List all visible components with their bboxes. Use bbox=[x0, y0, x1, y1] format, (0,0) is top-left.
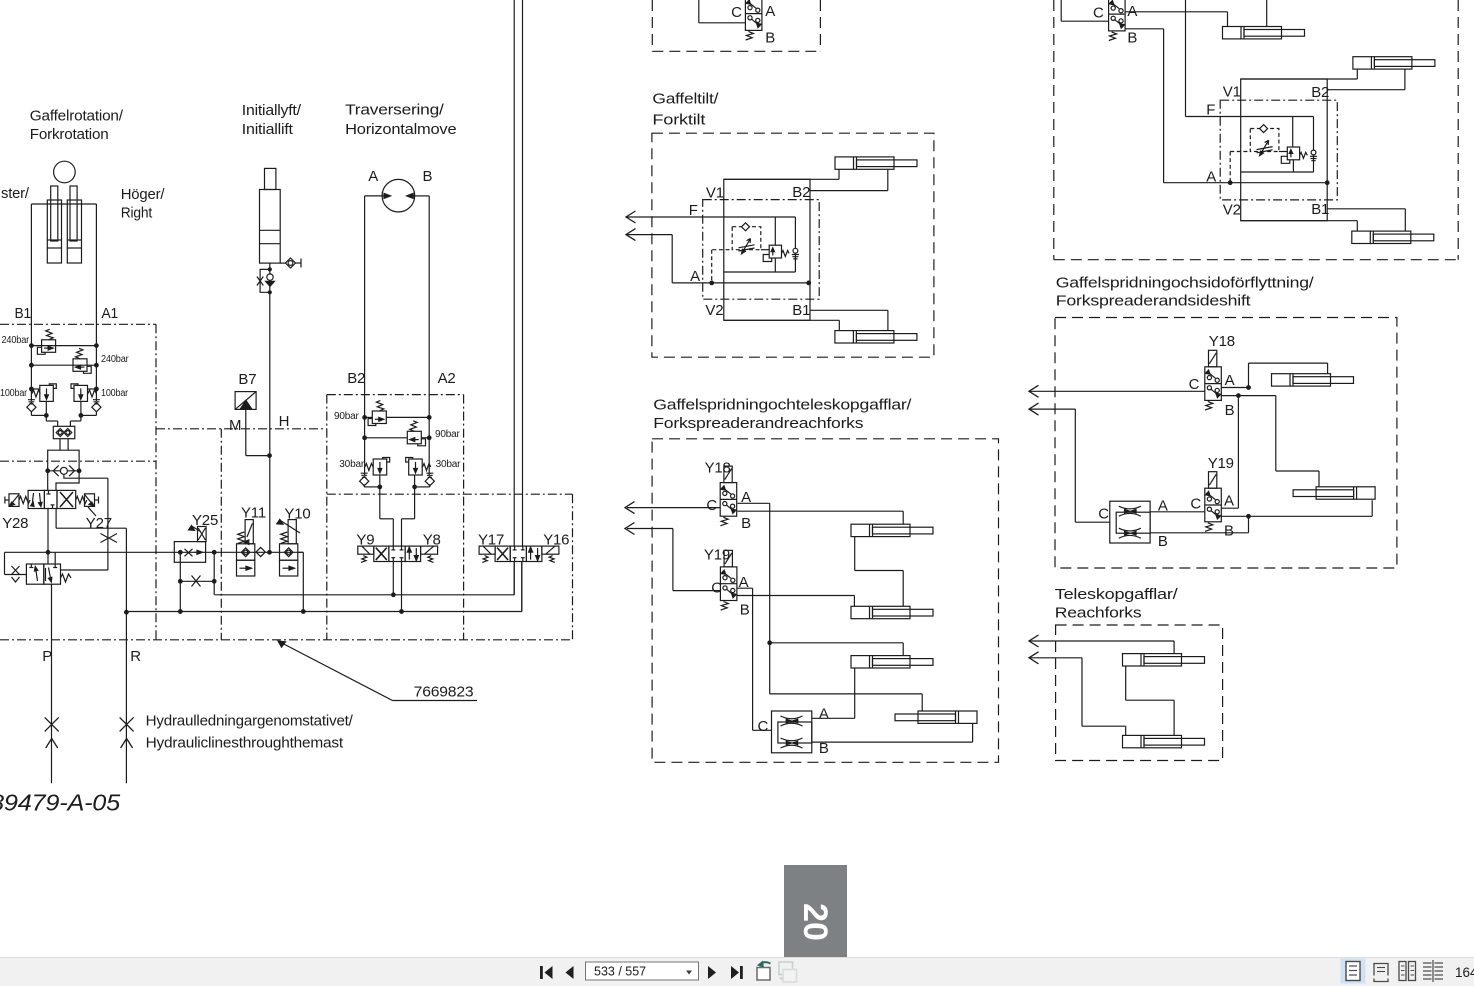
svg-text:A: A bbox=[819, 705, 829, 722]
wire C2 to Y19 reach bbox=[625, 523, 720, 591]
solenoid Y28 left actuator bbox=[5, 494, 30, 507]
wire Y19 A reach to divider bbox=[737, 588, 772, 730]
valve CAB top-right bbox=[1109, 0, 1126, 40]
dashed box sideshift bbox=[1055, 318, 1397, 569]
svg-text:100bar: 100bar bbox=[0, 388, 28, 399]
wire Y18 B reach bbox=[738, 511, 904, 524]
previous view icon bbox=[757, 961, 771, 981]
svg-text:C: C bbox=[1189, 376, 1200, 393]
dashed box top-center bbox=[652, 0, 820, 51]
pointer line 7669823 bbox=[278, 641, 477, 701]
svg-text:P: P bbox=[42, 648, 52, 665]
svg-text:B: B bbox=[740, 601, 750, 618]
svg-text:Gaffelrotation/: Gaffelrotation/ bbox=[30, 108, 124, 125]
page number combobox bbox=[586, 962, 699, 980]
svg-text:B: B bbox=[819, 740, 829, 757]
orifice symbol >< bbox=[101, 534, 118, 543]
nav next page icon bbox=[708, 966, 716, 979]
dash-dot bottom rail bbox=[0, 639, 573, 641]
pilot check block bbox=[46, 450, 108, 490]
svg-text:A: A bbox=[1127, 3, 1137, 20]
wire lower rail 611.5 bbox=[126, 562, 521, 612]
wire divider A to Y19 C bbox=[1150, 511, 1205, 513]
wire teleskop loop bbox=[1126, 667, 1174, 736]
wire B1 right bbox=[1327, 209, 1405, 231]
svg-text:Y9: Y9 bbox=[356, 532, 374, 549]
wire rail jog after Y10 bbox=[299, 552, 306, 613]
svg-text:V2: V2 bbox=[705, 302, 723, 319]
net A1 vertical bbox=[95, 204, 97, 401]
teleskop cylinder 2 bbox=[1123, 735, 1205, 747]
svg-text:164: 164 bbox=[1455, 965, 1474, 980]
dashed box Gaffeltilt bbox=[652, 133, 934, 357]
svg-text:M: M bbox=[229, 417, 241, 434]
svg-text:H: H bbox=[279, 413, 290, 430]
rotator outer box top bbox=[31, 203, 96, 205]
reach cylinder 1 bbox=[851, 524, 933, 536]
wire Y18 B port bbox=[1221, 394, 1319, 508]
svg-text:Reachforks: Reachforks bbox=[1055, 604, 1142, 621]
nav first page icon bbox=[540, 966, 553, 979]
shuttle diamond between Y11 Y10 bbox=[256, 547, 265, 556]
reducing valve 30bar left bbox=[360, 458, 390, 519]
initial lift cylinder rod bbox=[265, 168, 276, 189]
svg-text:Y18: Y18 bbox=[1209, 333, 1235, 350]
svg-text:C: C bbox=[706, 497, 717, 514]
net B motor line bbox=[415, 196, 430, 475]
check valve diamond under B1 bbox=[27, 400, 36, 412]
svg-text:R: R bbox=[130, 648, 141, 665]
P arrow chevron bbox=[46, 739, 58, 749]
dash-dot M-H line bbox=[156, 428, 327, 430]
breather check on cylinder bbox=[280, 258, 301, 268]
svg-text:A: A bbox=[741, 489, 751, 506]
svg-text:A1: A1 bbox=[102, 305, 119, 322]
net F line bbox=[626, 211, 795, 245]
relief valve 240bar right bbox=[73, 348, 91, 373]
wire 100bar row bbox=[30, 387, 99, 391]
svg-text:A: A bbox=[739, 574, 749, 591]
next view icon disabled bbox=[779, 962, 797, 982]
svg-text:240bar: 240bar bbox=[2, 335, 30, 346]
svg-text:A: A bbox=[1206, 169, 1216, 186]
wire M line bbox=[246, 409, 272, 457]
reducing valve 30bar right bbox=[406, 458, 435, 519]
wire pilot with orifice bbox=[61, 478, 108, 570]
svg-text:V1: V1 bbox=[706, 185, 724, 202]
svg-text:Y18: Y18 bbox=[705, 459, 731, 476]
wire Y18 A port bbox=[1221, 363, 1327, 389]
R flex joint X bbox=[120, 717, 134, 731]
svg-text:90bar: 90bar bbox=[435, 429, 461, 440]
svg-text:B: B bbox=[741, 515, 751, 532]
dashed box teleskop bbox=[1056, 625, 1223, 761]
valve Y10 bbox=[277, 519, 300, 576]
wire rail branch into lower valve bbox=[54, 552, 56, 564]
wire V1 right bbox=[1241, 69, 1358, 79]
dashed box top-right bbox=[1054, 0, 1458, 260]
wire Y9Y8 bottom ports bbox=[393, 562, 401, 612]
right tilt pilot dashed box bbox=[1220, 100, 1337, 200]
wire C to Y18 reach bbox=[625, 502, 720, 514]
wire B1 to bottom cylinder bbox=[810, 310, 888, 330]
svg-text:Gaffeltilt/: Gaffeltilt/ bbox=[652, 90, 719, 107]
net A motor line bbox=[365, 196, 383, 475]
wire H junction dot on rail bbox=[268, 551, 272, 555]
svg-text:Y27: Y27 bbox=[86, 515, 112, 532]
svg-text:A: A bbox=[1225, 372, 1235, 389]
valve Y17/Y16 bbox=[479, 546, 559, 562]
reducing valve 100bar right bbox=[71, 384, 88, 402]
svg-text:B: B bbox=[1225, 402, 1235, 419]
wire Y27 port to R drop bbox=[56, 509, 128, 615]
svg-text:30bar: 30bar bbox=[339, 459, 365, 470]
net H vertical bbox=[269, 263, 271, 552]
svg-text:F: F bbox=[1206, 102, 1215, 119]
wire V1 to top cylinder bbox=[724, 169, 839, 179]
initial lift cylinder barrel bbox=[260, 190, 281, 264]
svg-text:B2: B2 bbox=[1311, 84, 1329, 101]
page number gray box bbox=[784, 865, 847, 957]
shuttle valve block bbox=[53, 426, 75, 438]
relief valve 90bar right bbox=[407, 421, 425, 446]
svg-text:Gaffelspridningochteleskopgaff: Gaffelspridningochteleskopgafflar/ bbox=[653, 397, 912, 414]
wire V2 box bottom bbox=[724, 320, 840, 330]
flow divider reach bbox=[772, 711, 812, 753]
layout two pages continuous icon bbox=[1423, 960, 1443, 982]
wire teleskop line 2 bbox=[1029, 652, 1126, 736]
wire C to Y18 bbox=[1029, 385, 1205, 397]
layout single page icon selected bbox=[1341, 959, 1366, 984]
net R line bbox=[125, 612, 127, 783]
wire into upper cylinder from top bbox=[1266, 0, 1268, 27]
wire B2 to top cylinder rod bbox=[810, 169, 888, 190]
P flex joint X bbox=[45, 717, 59, 731]
right tilt cylinder 1 bbox=[1353, 57, 1435, 69]
R arrow chevron bbox=[121, 739, 133, 749]
valve Y19 sideshift bbox=[1205, 472, 1222, 532]
dashed box reach center bbox=[652, 439, 998, 763]
svg-text:90bar: 90bar bbox=[334, 411, 360, 422]
net A line bbox=[626, 229, 811, 285]
svg-text:F: F bbox=[689, 202, 698, 219]
svg-text:B7: B7 bbox=[238, 371, 256, 388]
svg-text:Hydraulledningargenomstativet/: Hydraulledningargenomstativet/ bbox=[146, 713, 354, 730]
svg-text:C: C bbox=[1098, 505, 1109, 522]
wire top-center C port bbox=[699, 0, 746, 23]
svg-text:20: 20 bbox=[796, 903, 834, 941]
svg-text:Y10: Y10 bbox=[284, 506, 310, 523]
pilot lock valve with bypass throttle bbox=[257, 268, 275, 294]
dash-dot box Forkrotation top edge bbox=[0, 323, 156, 325]
svg-text:Initiallyft/: Initiallyft/ bbox=[242, 102, 302, 119]
layout continuous icon bbox=[1374, 964, 1388, 982]
reducing valve 100bar left bbox=[40, 384, 57, 402]
wire V2 right box bottom bbox=[1241, 221, 1358, 231]
reach cylinder 4 mirrored bbox=[895, 711, 977, 723]
svg-text:Forkspreaderandsideshift: Forkspreaderandsideshift bbox=[1056, 293, 1252, 310]
dash-dot vertical x156 bbox=[155, 324, 157, 640]
wire Y19 A port up bbox=[1221, 507, 1238, 509]
wire 90bar left row bbox=[363, 416, 431, 420]
dash-dot vertical x221 bbox=[220, 429, 222, 640]
svg-text:533 / 557: 533 / 557 bbox=[594, 965, 646, 979]
valve Y18 reach bbox=[720, 466, 737, 526]
svg-text:V1: V1 bbox=[1223, 83, 1241, 100]
dash-dot box Forkrotation bottom edge bbox=[0, 460, 156, 462]
svg-text:A: A bbox=[1158, 498, 1168, 515]
svg-text:Y8: Y8 bbox=[423, 532, 441, 549]
svg-text:B: B bbox=[765, 30, 775, 47]
wire Y25 left drop bbox=[179, 551, 183, 614]
pressure sensor B7 bbox=[235, 392, 256, 410]
wire rail B1-A1 at 345.6 bbox=[31, 345, 96, 347]
svg-text:C: C bbox=[1093, 5, 1104, 22]
net vertical from top x514 bbox=[513, 0, 515, 546]
svg-text:Forkspreaderandreachforks: Forkspreaderandreachforks bbox=[653, 415, 863, 432]
valve Y11 bbox=[237, 520, 255, 576]
svg-text:Initiallift: Initiallift bbox=[242, 121, 294, 138]
wire Y28 to lower valve bbox=[46, 509, 50, 565]
svg-text:B1: B1 bbox=[1311, 201, 1329, 218]
wire teleskop line 1 bbox=[1029, 635, 1174, 654]
svg-text:A: A bbox=[368, 168, 378, 185]
svg-text:Right: Right bbox=[121, 205, 153, 222]
svg-text:A: A bbox=[1224, 493, 1234, 510]
wire Y17Y16 bottom ports bbox=[514, 562, 522, 612]
solenoid valve Y28/Y27 body bbox=[28, 490, 76, 508]
svg-text:B2: B2 bbox=[792, 184, 810, 201]
wire Y18 A reach bbox=[738, 503, 923, 711]
valve CAB top-center bbox=[745, 0, 762, 40]
valve Y19 reach bbox=[720, 550, 737, 610]
svg-text:240bar: 240bar bbox=[101, 354, 129, 365]
svg-text:Höger/: Höger/ bbox=[121, 186, 166, 203]
svg-text:V2: V2 bbox=[1223, 202, 1241, 219]
svg-text:Teleskopgafflar/: Teleskopgafflar/ bbox=[1055, 586, 1179, 603]
wire top-right C port bbox=[1061, 0, 1108, 21]
net P line bbox=[51, 584, 53, 783]
wire rail B1-A1 at 365.2 bbox=[31, 364, 96, 366]
svg-text:Gaffelspridningochsidoförflytt: Gaffelspridningochsidoförflyttning/ bbox=[1056, 275, 1315, 292]
flow divider sideshift bbox=[1110, 501, 1150, 543]
check valve diamond under A1 bbox=[92, 400, 101, 412]
svg-text:Y25: Y25 bbox=[192, 512, 218, 529]
spring lower valve bbox=[61, 574, 72, 582]
svg-text:B: B bbox=[1224, 523, 1234, 540]
svg-text:B: B bbox=[423, 168, 433, 185]
net vertical from top x522 bbox=[522, 0, 524, 546]
wire shuttle to check block bbox=[60, 439, 68, 451]
svg-text:Y19: Y19 bbox=[704, 547, 730, 564]
svg-text:B: B bbox=[1127, 30, 1137, 47]
wire C2 to divider bbox=[1029, 403, 1110, 522]
svg-text:C: C bbox=[758, 718, 769, 735]
svg-text:Traversering/: Traversering/ bbox=[345, 102, 445, 119]
svg-text:A: A bbox=[765, 3, 775, 20]
main rail P line 552.3 bbox=[5, 552, 304, 574]
teleskop cylinder 1 bbox=[1123, 654, 1205, 666]
svg-text:C: C bbox=[711, 579, 722, 596]
svg-text:B: B bbox=[1158, 533, 1168, 550]
rotator cylinder left barrel bbox=[47, 200, 61, 263]
net B1 vertical bbox=[30, 204, 32, 401]
relief valve 240bar left bbox=[37, 329, 55, 354]
right tilt cylinder 2 bbox=[1352, 231, 1434, 243]
right tilt valve solid box bbox=[1241, 79, 1328, 221]
svg-text:A2: A2 bbox=[438, 370, 456, 387]
svg-text:Y17: Y17 bbox=[478, 532, 504, 549]
svg-text:A: A bbox=[690, 268, 700, 285]
sideshift cylinder bottom mirrored bbox=[1293, 487, 1375, 499]
valve Y25 block bbox=[174, 526, 206, 563]
valve Y18 sideshift bbox=[1205, 350, 1222, 410]
tilt pilot dashed box bbox=[703, 200, 820, 300]
wire Y19 B port bbox=[1150, 500, 1372, 533]
wire A1 to merge bbox=[70, 402, 96, 426]
wire divider B to cyl4 bbox=[812, 724, 973, 742]
nav last page icon bbox=[731, 966, 743, 979]
cylinder top-right upper bbox=[1223, 27, 1305, 39]
sideshift cylinder top bbox=[1272, 374, 1354, 386]
svg-text:B1: B1 bbox=[792, 302, 810, 319]
lower reducing valve body bbox=[26, 564, 60, 584]
svg-text:ster/: ster/ bbox=[1, 185, 30, 202]
svg-text:89479-A-05: 89479-A-05 bbox=[0, 790, 120, 816]
rotator cylinder right rod bbox=[70, 186, 77, 241]
svg-text:Y11: Y11 bbox=[241, 505, 266, 522]
net A line right bbox=[1164, 181, 1329, 185]
rotator cylinder right barrel bbox=[67, 200, 81, 263]
svg-text:Forkrotation: Forkrotation bbox=[30, 126, 109, 143]
net F right bbox=[1186, 0, 1314, 147]
wire Y25 right drop with orifice X bbox=[180, 551, 216, 595]
wire top-right A port bbox=[1125, 12, 1227, 27]
reach cylinder 2 bbox=[851, 606, 933, 618]
svg-text:Y28: Y28 bbox=[2, 515, 28, 532]
svg-text:Hydrauliclinesthroughthemast: Hydrauliclinesthroughthemast bbox=[146, 735, 344, 752]
wire B1 to merge bbox=[31, 402, 57, 426]
wire top-right B port bbox=[1125, 29, 1163, 183]
wire divider A to cyl3 bbox=[812, 668, 855, 718]
rotator pulley circle bbox=[54, 161, 76, 183]
wire Y19 B reach to cyl2 bbox=[737, 596, 855, 607]
layout two pages icon bbox=[1399, 962, 1416, 981]
svg-text:C: C bbox=[1190, 495, 1201, 512]
dash-dot box B2A2 bbox=[327, 395, 464, 640]
svg-text:Horizontalmove: Horizontalmove bbox=[345, 121, 456, 138]
wire 90bar right row bbox=[363, 436, 431, 440]
toolbar strip bbox=[0, 958, 1474, 986]
svg-text:7669823: 7669823 bbox=[414, 684, 474, 701]
wire B2 right bbox=[1327, 69, 1405, 90]
svg-text:C: C bbox=[731, 4, 742, 21]
tilt cylinder bottom bbox=[835, 331, 917, 343]
solenoid Y27 right actuator bbox=[76, 494, 99, 516]
svg-text:100bar: 100bar bbox=[101, 388, 129, 399]
wire upper rail 594.8 bbox=[215, 562, 515, 614]
hydraulic motor Traversering bbox=[382, 179, 415, 212]
right tilt internals bbox=[1230, 117, 1317, 183]
tilt counterbalance internals bbox=[712, 217, 799, 283]
nav prev page icon bbox=[566, 966, 574, 979]
tilt valve solid box bbox=[724, 179, 810, 320]
svg-text:Forktilt: Forktilt bbox=[652, 112, 706, 129]
relief valve 90bar left bbox=[368, 401, 386, 426]
valve Y9/Y8 bbox=[358, 546, 438, 562]
svg-text:30bar: 30bar bbox=[436, 459, 462, 470]
svg-text:Y19: Y19 bbox=[1208, 455, 1234, 472]
svg-text:B1: B1 bbox=[15, 305, 32, 322]
rotator cylinder left rod bbox=[51, 186, 58, 241]
relief symbol X with chevron bbox=[12, 566, 20, 582]
reach cylinder 3 bbox=[851, 656, 933, 668]
svg-text:Y16: Y16 bbox=[543, 532, 569, 549]
dash-dot box Y9Y8 top bbox=[327, 494, 573, 640]
wire cyl1 loop to cyl2 bbox=[855, 537, 904, 607]
svg-text:B2: B2 bbox=[347, 370, 365, 387]
wire staircase into Y9Y8 bbox=[380, 519, 415, 546]
tilt cylinder top bbox=[835, 157, 917, 169]
